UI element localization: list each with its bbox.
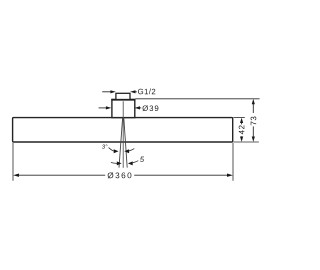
extension line Ø360 left: [12, 143, 14, 181]
dimension 42 down arrow: [240, 137, 243, 142]
width arrow row2 left: [117, 161, 122, 165]
dimension Ø39 left arrow: [106, 106, 111, 109]
shower head body (side view, Ø360 plate): [13, 118, 233, 142]
dimension Ø39 right arrow: [135, 106, 140, 109]
extension line Ø360 right: [232, 143, 234, 181]
dimension G1/2 right arrow: [130, 90, 135, 93]
dimension 42 lower segment: [241, 136, 243, 138]
dimension Ø360 right line: [134, 174, 228, 176]
dimension G1/2 left arrow: [110, 90, 115, 93]
dimension 42 up arrow: [240, 118, 243, 123]
leader row2 right to 5: [132, 161, 138, 163]
leader row1 right: [129, 149, 135, 151]
extension line head top right: [233, 117, 244, 119]
label 73 (rotated): [251, 117, 257, 126]
leader 3 degrees: [109, 148, 114, 151]
label G1/2: [138, 89, 155, 95]
label 42 (rotated): [239, 125, 245, 134]
label 5: [140, 157, 144, 162]
dimension Ø39 left line: [99, 107, 107, 109]
dimension Ø360 right arrow: [227, 174, 233, 177]
extension line head bottom right: [233, 141, 259, 143]
center seam line: [122, 101, 124, 168]
label Ø360: [108, 172, 132, 178]
G1/2 thread nipple: [116, 93, 130, 99]
dimension Ø39 right line: [140, 107, 142, 109]
dimension G1/2 right line: [135, 91, 137, 93]
dimension Ø360 left line: [18, 174, 105, 176]
extension line connector top: [135, 98, 259, 100]
angle arrow row1 left: [114, 149, 119, 153]
dimension 73 down arrow: [252, 137, 255, 142]
label 3 degrees: [102, 145, 107, 149]
dimension 73 up arrow: [252, 99, 255, 104]
label Ø39: [142, 105, 158, 111]
dimension Ø360 left arrow: [13, 174, 19, 177]
leader row2 left: [111, 162, 117, 165]
width arrow row2 right: [128, 161, 133, 165]
connector top thick line: [111, 99, 135, 101]
dimension 42 upper segment: [241, 122, 243, 125]
dimension 73 upper segment: [252, 103, 254, 113]
dimension 73 lower segment: [252, 126, 254, 138]
spray line right: [124, 118, 127, 168]
spray line left: [119, 118, 123, 168]
connector body Ø39: [112, 99, 135, 117]
angle arrow row1 right: [124, 149, 129, 153]
dimension G1/2 left line: [102, 91, 111, 93]
